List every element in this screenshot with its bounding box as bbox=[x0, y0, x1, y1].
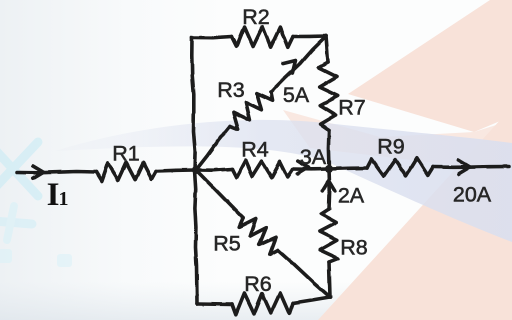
current arrow 2A on R8 branch bbox=[323, 181, 335, 191]
resistor R6 bbox=[232, 293, 293, 315]
svg-text:R4: R4 bbox=[241, 138, 269, 162]
resistor R3 bbox=[230, 92, 273, 129]
current arrow 5A on R3 branch bbox=[283, 61, 296, 74]
wire R8 top lead bbox=[327, 169, 331, 209]
svg-text:R3: R3 bbox=[217, 78, 245, 102]
wire R4 right lead bbox=[293, 167, 329, 171]
svg-text:R6: R6 bbox=[244, 272, 272, 296]
label I1 bbox=[47, 177, 69, 213]
current arrow I1 input bbox=[33, 166, 44, 179]
wire R9 output lead bbox=[433, 165, 509, 169]
current arrow 20A output bbox=[458, 160, 470, 174]
resistor R8 bbox=[320, 209, 339, 262]
resistor R5 bbox=[239, 218, 278, 254]
wire R7 bottom lead bbox=[327, 130, 331, 169]
wire R3 upper lead bbox=[271, 36, 326, 92]
wire R5 upper lead bbox=[196, 170, 243, 218]
wire R5 lower lead bbox=[278, 250, 330, 297]
svg-text:3A: 3A bbox=[300, 145, 327, 169]
wire R4 left lead bbox=[196, 169, 232, 170]
svg-text:R9: R9 bbox=[377, 135, 404, 159]
wire R8 bottom lead bbox=[329, 262, 330, 297]
svg-text:20A: 20A bbox=[453, 183, 492, 207]
wire top left bbox=[192, 37, 232, 38]
svg-text:2A: 2A bbox=[338, 184, 365, 208]
resistor R1 bbox=[96, 162, 156, 181]
wire bottom right bbox=[293, 297, 330, 303]
wire left vertical branch bbox=[192, 37, 197, 304]
wire bottom left bbox=[197, 302, 232, 306]
wire R3 lower lead bbox=[196, 126, 230, 170]
svg-text:R8: R8 bbox=[340, 236, 368, 260]
resistor R7 bbox=[319, 62, 338, 130]
svg-text:R2: R2 bbox=[242, 5, 269, 29]
wire top right bbox=[293, 34, 326, 38]
wire R9 left lead bbox=[329, 168, 367, 169]
wire input lead bbox=[17, 172, 96, 173]
node B junction dot bbox=[325, 165, 333, 173]
current arrow 3A on R4 branch bbox=[298, 161, 309, 174]
svg-text:R5: R5 bbox=[213, 232, 241, 256]
svg-text:1: 1 bbox=[59, 188, 69, 210]
svg-text:I: I bbox=[47, 177, 60, 213]
svg-text:5A: 5A bbox=[283, 83, 310, 107]
svg-text:R1: R1 bbox=[112, 142, 139, 166]
wire R7 top lead bbox=[326, 36, 328, 62]
wire R1 to node A bbox=[156, 170, 196, 171]
resistor R2 bbox=[232, 27, 293, 48]
svg-text:R7: R7 bbox=[338, 96, 365, 120]
resistor R4 bbox=[232, 160, 293, 177]
node A junction dot bbox=[192, 166, 200, 174]
resistor R9 bbox=[367, 158, 433, 176]
